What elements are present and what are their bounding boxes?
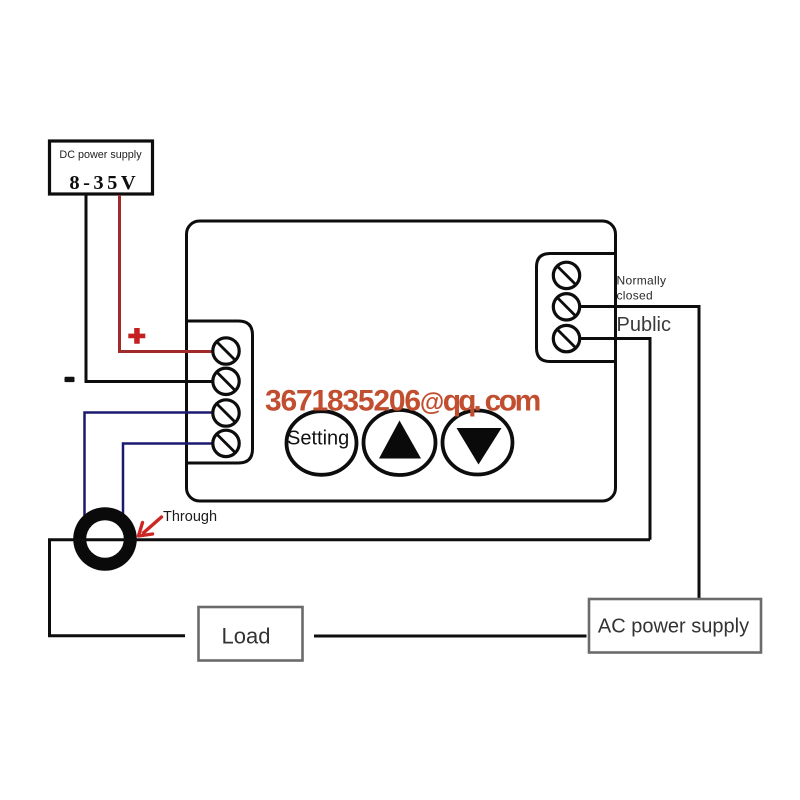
AC power supply box (589, 599, 761, 653)
terminal screw 6 (public) (553, 294, 579, 320)
button: up arrow (364, 410, 436, 475)
svg-text:8-35V: 8-35V (69, 172, 139, 194)
right terminal block J2 (537, 254, 618, 362)
svg-text:Normally: Normally (617, 274, 667, 288)
wire: blue CT lead B to terminal 4 (123, 444, 224, 515)
DC power supply box (50, 141, 153, 194)
Load box (199, 607, 303, 661)
terminal screw 7 (normally open) (553, 325, 579, 351)
label: minus sign (65, 377, 75, 382)
wire: blue CT lead A to terminal 3 (85, 413, 225, 517)
svg-text:Through: Through (163, 509, 217, 525)
terminal screw 5 (normally closed) (553, 262, 579, 288)
wire: Load to AC power supply (314, 635, 587, 638)
wire: DC plus (red) to terminal 1 (120, 195, 225, 352)
svg-text:DC power supply: DC power supply (59, 149, 142, 161)
wire: DC minus (black) to terminal 2 (86, 195, 224, 382)
arrow to CT (139, 517, 162, 536)
svg-text:3671835206@qq. com: 3671835206@qq. com (265, 385, 540, 418)
svg-text:Public: Public (617, 314, 671, 336)
wire: NO terminal down, through CT, to Load (580, 339, 650, 540)
terminal screw 2 (V-) (213, 368, 239, 394)
current transformer CT ring (73, 507, 137, 571)
terminal screw 4 (CT B) (213, 430, 239, 456)
wire: main AC line through CT to Load (50, 540, 651, 636)
svg-text:AC power supply: AC power supply (598, 616, 749, 638)
button: down arrow (443, 411, 513, 475)
terminal screw 3 (CT A) (213, 400, 239, 426)
terminal screw 1 (V+) (213, 338, 239, 364)
controller module U1 outline (187, 221, 616, 501)
svg-text:Load: Load (222, 623, 271, 648)
left terminal block J1 (187, 321, 253, 463)
button: Setting (circle) (287, 411, 357, 475)
wire: Public terminal to AC supply top (580, 307, 699, 599)
svg-text:closed: closed (617, 289, 654, 303)
module border segment over block (614, 252, 617, 363)
svg-text:Setting: Setting (287, 428, 349, 450)
label: plus sign (128, 328, 145, 344)
